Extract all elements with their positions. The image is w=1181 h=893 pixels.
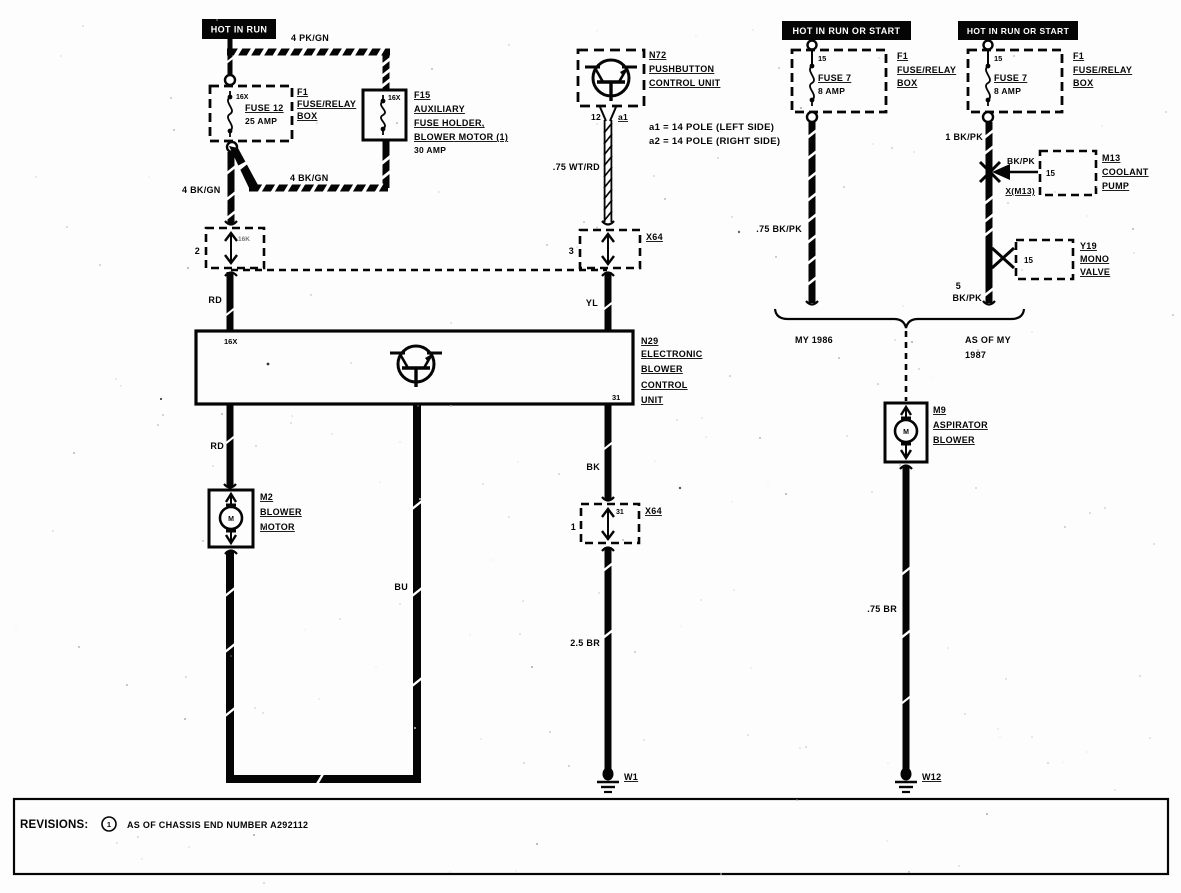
svg-text:X64: X64 (646, 232, 663, 242)
fuse holder F15 (solid box) (363, 90, 406, 140)
svg-text:M2: M2 (260, 492, 273, 502)
svg-text:ASPIRATOR: ASPIRATOR (933, 420, 988, 430)
wire down to connector 2 (228, 152, 235, 224)
svg-text:a1 = 14 POLE (LEFT SIDE): a1 = 14 POLE (LEFT SIDE) (649, 122, 774, 133)
svg-text:AS OF CHASSIS END NUMBER A2921: AS OF CHASSIS END NUMBER A292112 (127, 820, 308, 830)
transistor symbol in N72 (593, 60, 629, 96)
svg-text:PUSHBUTTON: PUSHBUTTON (649, 64, 714, 74)
ground W1 (605, 767, 612, 769)
svg-text:8 AMP: 8 AMP (818, 86, 845, 96)
mono valve Y19 (dashed box) (1016, 240, 1073, 279)
node: connector circle above F1 (225, 75, 235, 85)
svg-text:M9: M9 (933, 405, 946, 415)
wire from M2 down and looping to N29 (BU) (226, 551, 234, 783)
svg-text:M13: M13 (1102, 153, 1120, 163)
svg-text:N72: N72 (649, 50, 666, 60)
svg-text:16X: 16X (388, 95, 401, 102)
svg-text:X64: X64 (645, 506, 662, 516)
fuse/relay box F1 (dashed) col x=812 (792, 50, 886, 112)
svg-text:COOLANT: COOLANT (1102, 167, 1149, 177)
svg-text:VALVE: VALVE (1080, 267, 1110, 277)
power label HOT IN RUN OR START (left) (782, 21, 911, 40)
svg-text:CONTROL: CONTROL (641, 380, 688, 390)
svg-text:.75 BR: .75 BR (867, 604, 897, 614)
svg-text:15: 15 (994, 54, 1002, 63)
svg-text:MOTOR: MOTOR (260, 522, 295, 532)
wire .75 BR to ground W12 (903, 466, 910, 770)
wire 2.5 BR to ground W1 (605, 547, 612, 770)
connector 1 / X64 (dashed box) (581, 504, 639, 543)
svg-text:BOX: BOX (297, 111, 317, 121)
aspirator blower M9 (solid box) (885, 403, 927, 462)
svg-text:RD: RD (210, 441, 224, 451)
control unit N29 (solid box) (196, 331, 633, 404)
svg-text:31: 31 (612, 393, 620, 402)
svg-text:30 AMP: 30 AMP (414, 145, 446, 155)
fuse/relay box F1 (dashed) with FUSE 12 (210, 86, 292, 141)
svg-text:M: M (903, 429, 909, 436)
svg-text:16K: 16K (238, 236, 250, 243)
svg-text:FUSE 7: FUSE 7 (818, 73, 851, 83)
svg-text:FUSE/RELAY: FUSE/RELAY (297, 99, 356, 109)
svg-text:AUXILIARY: AUXILIARY (414, 104, 465, 114)
svg-text:1: 1 (571, 522, 576, 532)
wire RD from N29 to blower motor M2 (227, 404, 234, 487)
svg-text:4 BK/GN: 4 BK/GN (290, 173, 329, 183)
svg-text:31: 31 (616, 509, 624, 516)
svg-text:2.5 BR: 2.5 BR (570, 638, 600, 648)
transistor symbol in N29 (398, 346, 434, 382)
svg-text:12: 12 (591, 112, 601, 122)
svg-text:8 AMP: 8 AMP (994, 86, 1021, 96)
svg-text:a1: a1 (618, 112, 628, 122)
scan speckles (decorative) (752, 29, 753, 30)
svg-text:HOT IN RUN OR START: HOT IN RUN OR START (793, 26, 901, 36)
svg-text:FUSE/RELAY: FUSE/RELAY (1073, 65, 1132, 75)
svg-text:BLOWER MOTOR (1): BLOWER MOTOR (1) (414, 132, 508, 142)
connector circle below fuse box (807, 112, 817, 122)
wire RD into N29 (227, 272, 234, 331)
svg-text:a2 = 14 POLE (RIGHT SIDE): a2 = 14 POLE (RIGHT SIDE) (649, 136, 780, 147)
svg-text:ELECTRONIC: ELECTRONIC (641, 349, 703, 359)
wire .75 BK/PK (MY 1986 column) (809, 122, 816, 303)
svg-text:.75 WT/RD: .75 WT/RD (553, 162, 600, 172)
svg-text:F1: F1 (297, 87, 308, 97)
splice to mono valve: X junction (992, 248, 1014, 268)
svg-text:HOT IN RUN: HOT IN RUN (211, 25, 268, 35)
svg-text:4 PK/GN: 4 PK/GN (291, 33, 329, 43)
svg-text:AS OF MY: AS OF MY (965, 335, 1011, 345)
node: connector circle below F1 (227, 142, 237, 152)
svg-text:15: 15 (818, 54, 826, 63)
svg-text:1 BK/PK: 1 BK/PK (945, 132, 983, 142)
blower motor M2 (solid box) (209, 490, 253, 547)
connector circle above fuse (col x=812) (811, 40, 813, 66)
svg-text:15: 15 (1046, 169, 1055, 178)
control unit N72 (dashed box) (578, 50, 644, 106)
power label HOT IN RUN OR START (right) (958, 21, 1078, 40)
svg-text:HOT IN RUN OR START: HOT IN RUN OR START (967, 26, 1070, 36)
svg-text:2: 2 (195, 246, 200, 256)
svg-text:16X: 16X (224, 337, 237, 346)
coolant pump M13 (dashed box) (1040, 151, 1096, 195)
wire 4 BK/GN from F15 bottom to junction (383, 140, 390, 188)
svg-text:BK: BK (586, 462, 600, 472)
revisions box (14, 799, 1168, 874)
fuse FUSE 12 25 AMP (228, 95, 233, 100)
wire 4 PK/GN top horizontal (227, 49, 390, 56)
svg-text:X(M13): X(M13) (1005, 186, 1035, 196)
wire from HOT IN RUN down to F1 (228, 39, 233, 75)
svg-text:UNIT: UNIT (641, 395, 663, 405)
dashed link wire between connector 2 and connector 3 (231, 269, 607, 271)
brace grouping MY1986 / AS OF MY 1987 (775, 309, 1024, 328)
svg-text:FUSE 7: FUSE 7 (994, 73, 1027, 83)
svg-text:BLOWER: BLOWER (641, 364, 683, 374)
svg-text:BLOWER: BLOWER (260, 507, 302, 517)
svg-text:F1: F1 (897, 51, 908, 61)
svg-text:CONTROL UNIT: CONTROL UNIT (649, 78, 721, 88)
svg-text:BOX: BOX (1073, 78, 1093, 88)
svg-text:BK/PK: BK/PK (952, 293, 982, 303)
connector 3 / X64 (dashed box) (580, 230, 640, 268)
power label HOT IN RUN (202, 19, 276, 39)
svg-text:1: 1 (107, 820, 111, 829)
svg-text:15: 15 (1024, 256, 1033, 265)
wire YL into N29 (605, 272, 612, 331)
svg-text:MONO: MONO (1080, 254, 1109, 264)
svg-text:Y19: Y19 (1080, 241, 1097, 251)
connector circle below fuse box (983, 112, 993, 122)
splice to coolant pump: X junction (980, 162, 1000, 182)
svg-text:F15: F15 (414, 90, 430, 100)
svg-text:N29: N29 (641, 336, 658, 346)
svg-text:REVISIONS:: REVISIONS: (20, 819, 88, 831)
wire .75 WT/RD (thin, hatched) (600, 107, 616, 121)
svg-text:W1: W1 (624, 772, 638, 782)
svg-text:25 AMP: 25 AMP (245, 116, 277, 126)
connector 2 (dashed box) (206, 228, 264, 268)
wire 1 BK/PK (AS OF MY 1987 column) (986, 122, 993, 303)
svg-text:MY 1986: MY 1986 (795, 335, 833, 345)
fuse/relay box F1 (dashed) col x=988 (968, 50, 1062, 112)
svg-text:M: M (228, 516, 234, 523)
svg-text:W12: W12 (922, 772, 941, 782)
svg-text:3: 3 (569, 246, 574, 256)
revision circled 1 (102, 817, 116, 831)
connector circle above fuse (col x=988) (987, 40, 989, 66)
svg-text:BU: BU (394, 582, 408, 592)
arrow from M13 into wire (998, 171, 1038, 173)
svg-text:PUMP: PUMP (1102, 181, 1129, 191)
fuse FUSE 7 8 AMP (810, 64, 815, 69)
svg-text:F1: F1 (1073, 51, 1084, 61)
svg-text:5: 5 (956, 281, 961, 291)
fuse FUSE 7 8 AMP (986, 64, 991, 69)
svg-text:FUSE HOLDER,: FUSE HOLDER, (414, 118, 485, 128)
ground W12 (903, 767, 910, 769)
svg-text:BLOWER: BLOWER (933, 435, 975, 445)
svg-text:BOX: BOX (897, 78, 917, 88)
svg-text:FUSE 12: FUSE 12 (245, 103, 284, 113)
dashed wire from brace to M9 (905, 331, 908, 401)
svg-text:1987: 1987 (965, 350, 986, 360)
svg-text:4 BK/GN: 4 BK/GN (182, 185, 221, 195)
svg-text:YL: YL (586, 298, 598, 308)
svg-text:BK/PK: BK/PK (1007, 156, 1036, 166)
svg-text:RD: RD (208, 295, 222, 305)
svg-text:FUSE/RELAY: FUSE/RELAY (897, 65, 956, 75)
svg-text:16X: 16X (236, 94, 249, 101)
wire BK from N29 to connector 1 (605, 404, 612, 500)
svg-text:.75 BK/PK: .75 BK/PK (756, 224, 802, 234)
